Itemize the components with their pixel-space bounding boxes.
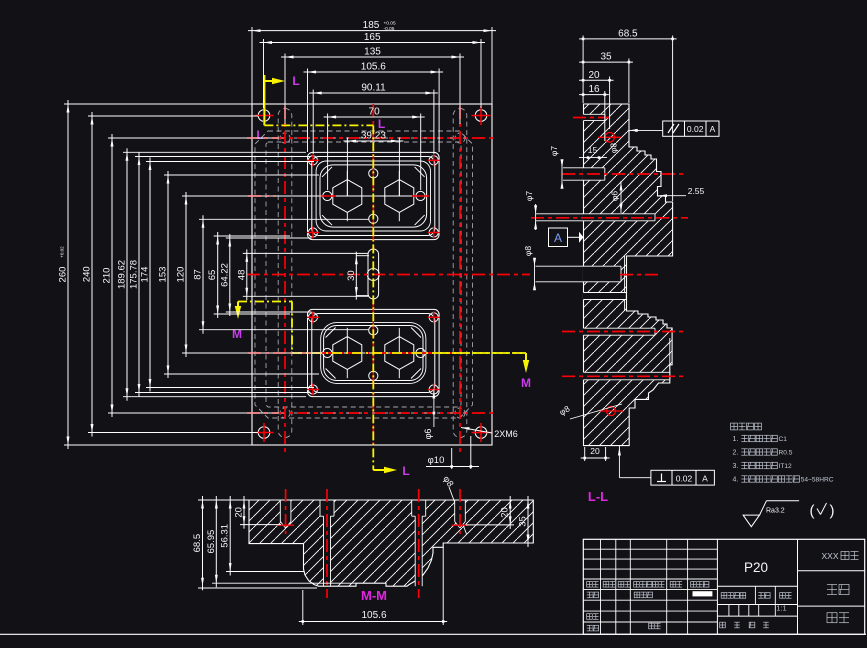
dim 2.55 bbox=[659, 186, 705, 197]
svg-text:φ10: φ10 bbox=[428, 455, 445, 466]
dim 65.95 (M-M left) bbox=[206, 496, 218, 587]
svg-text:56.31: 56.31 bbox=[220, 524, 231, 548]
hidden flange contour outer (dashed octagon) bbox=[255, 131, 473, 418]
dim 20 (L-L top) bbox=[579, 70, 614, 129]
svg-text:A: A bbox=[702, 474, 708, 484]
svg-text:φ7: φ7 bbox=[549, 146, 559, 157]
svg-text:L: L bbox=[292, 74, 299, 88]
FCF perpendicular 0.02 A bbox=[618, 446, 715, 485]
svg-text:φ7: φ7 bbox=[524, 191, 534, 202]
svg-text:210: 210 bbox=[102, 268, 113, 284]
svg-text:39.23: 39.23 bbox=[361, 131, 386, 142]
svg-text:185: 185 bbox=[363, 20, 380, 31]
dim 35 (L-L) bbox=[579, 52, 633, 103]
dim 87 (vertical) bbox=[193, 215, 369, 333]
dim 90.11 bbox=[309, 83, 438, 155]
label 2XM6 bbox=[461, 427, 518, 439]
svg-text:+0.02: +0.02 bbox=[60, 246, 65, 258]
svg-text:C1: C1 bbox=[779, 436, 788, 443]
svg-text:20: 20 bbox=[500, 507, 511, 518]
M-M extension lines left bbox=[198, 500, 356, 588]
svg-text:90.11: 90.11 bbox=[361, 83, 386, 94]
svg-text:105.6: 105.6 bbox=[361, 610, 386, 621]
dim 135 bbox=[281, 47, 464, 125]
svg-text:120: 120 bbox=[176, 267, 187, 283]
svg-text:1.: 1. bbox=[733, 436, 739, 443]
dim 16 bbox=[579, 84, 609, 141]
bottom frame line bbox=[0, 633, 866, 635]
technical notes bbox=[731, 423, 834, 483]
finish symbol in parentheses bbox=[810, 503, 835, 520]
svg-text:35: 35 bbox=[518, 516, 529, 527]
plan view plate outline bbox=[252, 104, 492, 445]
svg-text:L-L: L-L bbox=[588, 489, 608, 504]
section line M (yellow stepped cut) bbox=[235, 302, 529, 374]
M-M screw channels (clear) bbox=[320, 489, 426, 598]
dim 20 (M-M left) bbox=[234, 496, 246, 529]
svg-text:65: 65 bbox=[207, 270, 218, 281]
dim 210 (vertical) bbox=[102, 134, 280, 417]
svg-text:φ6: φ6 bbox=[610, 191, 620, 202]
dim 68.5 (M-M left) bbox=[192, 496, 204, 590]
dim 30 slot bbox=[346, 252, 369, 300]
svg-text:M: M bbox=[232, 327, 242, 341]
dim phi6 in section bbox=[610, 181, 623, 213]
L-L section outline and hatch bbox=[584, 104, 673, 446]
svg-text:3.: 3. bbox=[733, 463, 739, 470]
dim 20 (M-M right) bbox=[466, 496, 514, 529]
svg-text:L: L bbox=[378, 117, 385, 131]
svg-text:48: 48 bbox=[236, 270, 247, 281]
dim 189.62 (vertical) bbox=[117, 148, 307, 400]
svg-text:68.5: 68.5 bbox=[192, 534, 203, 553]
svg-text:A: A bbox=[710, 124, 716, 134]
svg-text:1:1: 1:1 bbox=[776, 604, 786, 613]
dim 35 (M-M right) bbox=[518, 496, 530, 547]
dim 120 (vertical) bbox=[176, 192, 322, 357]
dim 39.23 bbox=[343, 131, 403, 197]
center slot between pockets bbox=[367, 249, 379, 299]
dim 105.6 bbox=[304, 62, 444, 153]
svg-text:54~58HRC: 54~58HRC bbox=[801, 477, 834, 484]
svg-text:XXX: XXX bbox=[821, 551, 838, 561]
hidden screw columns (dashed) bbox=[278, 106, 467, 453]
dim 153 (vertical) bbox=[158, 171, 320, 378]
dim 64.22 (vertical) bbox=[219, 234, 311, 316]
svg-text:+0.05: +0.05 bbox=[384, 21, 396, 27]
projection lines plan to L-L bbox=[536, 168, 584, 282]
svg-text:2.: 2. bbox=[733, 450, 739, 457]
L-L view label bbox=[588, 489, 608, 504]
dim 56.31 (M-M left) bbox=[220, 496, 232, 576]
dim 165 bbox=[260, 32, 486, 108]
dim 20 (L-L bottom) bbox=[581, 446, 610, 461]
svg-text:135: 135 bbox=[364, 47, 381, 58]
svg-text:87: 87 bbox=[193, 269, 204, 280]
svg-text:20: 20 bbox=[234, 507, 245, 518]
datum A flag bbox=[549, 228, 584, 247]
dim 185+-0.05 bbox=[248, 20, 496, 104]
svg-text:IT12: IT12 bbox=[779, 463, 793, 470]
L labels magenta bbox=[256, 74, 409, 478]
svg-text:16: 16 bbox=[588, 84, 600, 95]
svg-text:20: 20 bbox=[588, 70, 600, 81]
svg-text:64.22: 64.22 bbox=[219, 263, 230, 287]
svg-text:260: 260 bbox=[58, 267, 69, 283]
dim phi6 bbox=[423, 389, 435, 439]
dim 105.6 (M-M) bbox=[299, 547, 447, 625]
M labels magenta bbox=[232, 327, 531, 390]
FCF parallel 0.02 A bbox=[629, 121, 719, 136]
svg-text:105.6: 105.6 bbox=[361, 62, 386, 73]
svg-text:68.5: 68.5 bbox=[618, 28, 638, 39]
svg-text:0.02: 0.02 bbox=[687, 124, 704, 134]
surface finish symbol Ra3.2 bbox=[743, 501, 799, 527]
svg-text:M: M bbox=[521, 376, 531, 390]
svg-text:65.95: 65.95 bbox=[206, 530, 217, 554]
dim 15 bbox=[579, 145, 607, 159]
svg-text:φ8: φ8 bbox=[523, 246, 533, 257]
leader phi8 bottom left bbox=[558, 403, 622, 419]
dim phi10 bbox=[426, 436, 479, 469]
upper cavity pocket bbox=[307, 152, 440, 239]
svg-text:L: L bbox=[256, 128, 263, 142]
label phi8 in section bbox=[609, 143, 619, 154]
L-L red centerlines bbox=[531, 118, 688, 377]
corner bolt holes phi10 bbox=[255, 106, 491, 442]
svg-text:174: 174 bbox=[140, 267, 151, 283]
svg-text:L: L bbox=[402, 464, 409, 478]
dim phi7 (row 174) bbox=[549, 146, 564, 189]
svg-text:2XM6: 2XM6 bbox=[494, 429, 518, 439]
dim 174 (vertical) bbox=[140, 158, 315, 392]
L-L thread holes (red circles) bbox=[598, 133, 623, 416]
svg-text:(: ( bbox=[810, 503, 815, 520]
svg-text:0.02: 0.02 bbox=[676, 474, 693, 484]
dim 240 (vertical) bbox=[82, 112, 259, 437]
section line L (yellow stepped cut) bbox=[264, 75, 397, 473]
title block texts bbox=[587, 551, 859, 631]
svg-text:70: 70 bbox=[369, 107, 381, 118]
dim 65 (vertical) bbox=[207, 232, 290, 318]
svg-text:153: 153 bbox=[158, 267, 169, 283]
M-M drilled holes (clear) bbox=[277, 489, 468, 534]
leader phi8 to M-M bbox=[441, 474, 466, 534]
dim phi8 (rows 266-282) bbox=[523, 246, 536, 291]
title block grid bbox=[583, 539, 864, 634]
svg-text:A: A bbox=[554, 231, 562, 245]
dim phi7 (row 218) bbox=[524, 191, 537, 230]
hidden overlay dashes on hole rows bbox=[255, 138, 472, 413]
plan centerlines red bbox=[247, 104, 530, 445]
svg-text:R0.5: R0.5 bbox=[779, 450, 793, 457]
svg-text:M-M: M-M bbox=[361, 588, 387, 603]
svg-text:165: 165 bbox=[364, 32, 381, 43]
lower cavity pocket bbox=[307, 309, 440, 396]
svg-text:-0.05: -0.05 bbox=[384, 26, 395, 32]
hidden flange contour inner (dashed) bbox=[266, 142, 461, 407]
M-M section outline and hatch bbox=[249, 500, 533, 586]
svg-text:2.55: 2.55 bbox=[688, 186, 705, 196]
svg-text:189.62: 189.62 bbox=[117, 260, 128, 289]
dim 70 bbox=[324, 107, 425, 191]
svg-text:175.78: 175.78 bbox=[129, 260, 140, 289]
M-M view label bbox=[361, 588, 387, 603]
svg-text:30: 30 bbox=[346, 270, 357, 281]
svg-text:): ) bbox=[830, 503, 835, 520]
svg-text:φ8: φ8 bbox=[609, 143, 619, 154]
svg-text:20: 20 bbox=[590, 446, 600, 456]
svg-text:4.: 4. bbox=[733, 477, 739, 484]
svg-text:240: 240 bbox=[82, 266, 93, 282]
svg-text:P20: P20 bbox=[744, 560, 768, 575]
L-L hole channels (clear) bbox=[583, 114, 670, 380]
svg-text:φ6: φ6 bbox=[423, 429, 433, 440]
dim 48 (vertical) bbox=[236, 249, 368, 300]
svg-text:Ra3.2: Ra3.2 bbox=[766, 508, 785, 515]
dim 175.78 (vertical) bbox=[129, 153, 311, 397]
svg-text:15: 15 bbox=[588, 145, 598, 155]
dim 68.5 bbox=[579, 28, 677, 201]
svg-text:35: 35 bbox=[600, 52, 612, 63]
dim 260 (vertical) bbox=[58, 100, 253, 449]
